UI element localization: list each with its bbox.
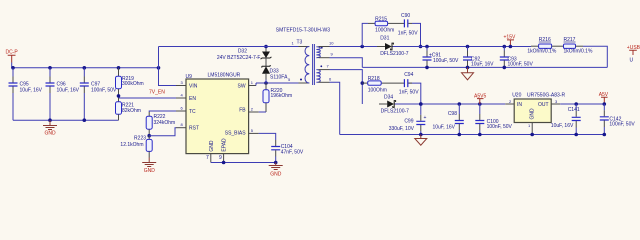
power +15V <box>504 34 516 48</box>
power A5V5 <box>474 93 486 104</box>
capacitor C98 <box>432 104 463 135</box>
wire U9 ground <box>211 162 276 164</box>
node C92 top <box>466 45 470 49</box>
node R219 R221 junction <box>117 94 121 98</box>
svg-text:C141: C141 <box>568 107 580 113</box>
wire primary top net <box>159 46 299 48</box>
node C91 bottom <box>425 66 429 70</box>
svg-text:47nF, 50V: 47nF, 50V <box>281 150 304 156</box>
resistor R216 <box>527 37 556 55</box>
diode D31 <box>377 36 409 58</box>
svg-text:10uF, 16V: 10uF, 16V <box>20 88 43 94</box>
pin GND stub U20 <box>531 123 533 135</box>
node C98 top <box>458 102 462 106</box>
regulator U20 <box>512 93 565 123</box>
resistor R215 <box>375 16 394 33</box>
node C91 top <box>425 45 429 49</box>
node C104 bottom <box>274 161 278 165</box>
capacitor C141 <box>551 104 581 135</box>
wire snubber2 <box>362 82 367 84</box>
node U20 GND bottom <box>530 133 534 137</box>
svg-text:7: 7 <box>206 155 209 161</box>
svg-text:10uF, 16V: 10uF, 16V <box>551 123 574 129</box>
svg-text:U20: U20 <box>512 93 521 99</box>
ground wedge below C99 <box>415 135 427 146</box>
resistor R218 <box>368 76 387 93</box>
svg-text:330uF, 10V: 330uF, 10V <box>389 126 415 132</box>
port +USB right edge <box>627 45 640 64</box>
pin SW stub and wire to transformer <box>249 85 256 87</box>
node C93 bottom <box>503 66 507 70</box>
diode D32 zener <box>217 47 272 62</box>
svg-text:EN: EN <box>189 96 196 102</box>
svg-text:1kOhm/0.1%: 1kOhm/0.1% <box>564 49 593 55</box>
svg-text:10uF, 16V: 10uF, 16V <box>57 88 80 94</box>
capacitor C95 <box>9 68 43 120</box>
svg-text:10uF, 16V: 10uF, 16V <box>432 125 455 131</box>
node C141 bottom <box>574 133 578 137</box>
svg-text:C98: C98 <box>448 111 457 117</box>
wire DC-P to VIN bus <box>11 63 13 68</box>
node VIN riser <box>157 66 161 70</box>
svg-text:TC: TC <box>189 109 196 115</box>
wire FB net <box>259 111 266 113</box>
node snubber1 right <box>419 45 423 49</box>
op-amp U9 body <box>186 72 249 153</box>
svg-text:C99: C99 <box>404 118 413 124</box>
wire A5V rail <box>560 103 604 105</box>
wire A5V5 rail <box>395 103 505 105</box>
svg-text:C90: C90 <box>401 13 410 19</box>
ground left GND <box>43 120 57 136</box>
pin OUT stub <box>551 103 560 105</box>
svg-text:D31: D31 <box>380 36 389 42</box>
resistor R221 <box>116 98 141 120</box>
svg-text:DC-P: DC-P <box>6 50 19 56</box>
capacitor C99 <box>389 104 427 135</box>
wire +15V rail <box>393 46 531 48</box>
wire snubber1 <box>362 23 420 46</box>
node C100 top <box>478 102 482 106</box>
wire SW net <box>256 83 299 86</box>
node C98 bottom <box>458 133 462 137</box>
ground below C104 <box>269 163 283 178</box>
capacitor C93 <box>500 47 534 68</box>
svg-text:U: U <box>630 58 634 64</box>
svg-text:100nF, 50V: 100nF, 50V <box>91 88 117 94</box>
capacitor C97 <box>80 68 117 120</box>
svg-text:1nF, 50V: 1nF, 50V <box>398 31 418 37</box>
pin FB stub <box>249 111 259 113</box>
capacitor C90 <box>398 13 418 37</box>
svg-text:C94: C94 <box>404 72 413 78</box>
svg-text:RST: RST <box>189 126 199 132</box>
node EPAD junction <box>222 161 226 165</box>
ground below R223 <box>142 151 156 174</box>
wire pin7 net <box>319 69 330 71</box>
svg-text:10uF, 16V: 10uF, 16V <box>471 61 494 67</box>
wire ground bus left <box>13 119 119 121</box>
wire output ground rail <box>340 134 605 136</box>
svg-text:100nF, 50V: 100nF, 50V <box>609 122 635 128</box>
node C96 top <box>48 66 52 70</box>
capacitor C104 <box>271 144 304 163</box>
resistor R222 <box>146 114 175 136</box>
resistor R219 <box>116 68 144 98</box>
svg-text:+: + <box>424 115 427 121</box>
node D32 top <box>264 45 268 49</box>
wire R216 R217 <box>552 45 564 47</box>
node C100 bottom <box>478 133 482 137</box>
svg-text:D32: D32 <box>238 49 247 55</box>
transformer T3 <box>276 28 334 86</box>
node SW clamp junction <box>264 81 268 85</box>
node C93 top <box>503 45 507 49</box>
svg-text:D34: D34 <box>384 94 393 100</box>
svg-text:FB: FB <box>239 108 246 114</box>
diode D33 <box>262 58 288 83</box>
svg-text:U9: U9 <box>186 74 193 80</box>
node C142 bottom corner <box>603 133 607 137</box>
port DC-P <box>6 50 19 63</box>
svg-text:GND: GND <box>45 131 57 137</box>
svg-text:VIN: VIN <box>189 84 198 90</box>
pin TC stub <box>176 110 186 112</box>
pin GND stub U9 <box>210 154 212 163</box>
wire pin9 net <box>319 57 330 59</box>
wire secondary ground rail <box>362 66 607 68</box>
wire SS_BIAS to C104 <box>259 133 276 140</box>
power A5V <box>599 92 609 106</box>
svg-text:100nF, 50V: 100nF, 50V <box>487 124 513 130</box>
node C92 bottom <box>466 66 470 70</box>
ground wedge below C92 <box>462 67 474 79</box>
pin VIN stub <box>176 85 186 87</box>
svg-text:R223: R223 <box>134 136 146 142</box>
wire VIN bus <box>12 67 159 69</box>
svg-text:GND: GND <box>209 140 215 152</box>
svg-text:SMTEFD15-T-30UH-W3: SMTEFD15-T-30UH-W3 <box>276 28 330 34</box>
capacitor C100 <box>475 104 512 135</box>
wire pin10 net <box>319 46 330 48</box>
svg-text:12.1kOhm: 12.1kOhm <box>120 142 143 148</box>
svg-text:324kOhm: 324kOhm <box>154 120 176 126</box>
svg-text:R215: R215 <box>375 16 387 22</box>
svg-text:GND: GND <box>144 168 156 174</box>
svg-text:1nF, 50V: 1nF, 50V <box>399 89 419 95</box>
wire VIN riser and VIN pin <box>159 47 177 86</box>
svg-text:GND: GND <box>530 108 536 120</box>
node C141 top <box>574 102 578 106</box>
node C97 bottom <box>83 118 87 122</box>
svg-text:S110FA: S110FA <box>270 75 288 81</box>
node R219 top <box>117 66 121 70</box>
wire pin6 net <box>319 81 330 83</box>
svg-text:100Ohm: 100Ohm <box>368 88 387 94</box>
capacitor C96 <box>46 68 80 120</box>
svg-text:UR7550G-A83-R: UR7550G-A83-R <box>527 93 565 99</box>
resistor R220 <box>263 83 292 112</box>
pin EPAD stub U9 <box>223 154 225 163</box>
svg-text:SS_BIAS: SS_BIAS <box>225 131 247 137</box>
node C97 top <box>83 66 87 70</box>
svg-text:10: 10 <box>329 41 334 46</box>
node snubber2 right <box>419 102 423 106</box>
svg-text:SW: SW <box>238 84 246 90</box>
svg-text:OUT: OUT <box>538 102 549 108</box>
svg-text:24V BZT52C24-7-F: 24V BZT52C24-7-F <box>217 55 261 61</box>
pin SS_BIAS stub <box>249 132 259 134</box>
capacitor C94 <box>399 72 419 95</box>
wire RST net <box>149 128 176 136</box>
resistor R217 <box>564 37 593 55</box>
node C96 bottom <box>48 118 52 122</box>
svg-text:R218: R218 <box>368 76 380 82</box>
wire R217 to ground loop <box>583 46 607 67</box>
node C99 bottom <box>419 133 423 137</box>
capacitor C92 <box>463 47 494 68</box>
node snubber2 left <box>361 81 365 85</box>
svg-text:100uF, 50V: 100uF, 50V <box>433 58 459 64</box>
svg-text:EPAD: EPAD <box>222 138 228 152</box>
pin RST stub <box>176 127 186 129</box>
capacitor C142 <box>600 104 636 135</box>
svg-text:100nF, 50V: 100nF, 50V <box>508 61 534 67</box>
resistor R223 <box>120 136 152 152</box>
svg-text:GND: GND <box>270 172 282 178</box>
wire TC net <box>149 111 176 112</box>
svg-text:DFLS2100-7: DFLS2100-7 <box>380 51 409 57</box>
svg-text:DFLS2100-7: DFLS2100-7 <box>381 109 410 115</box>
svg-text:T3: T3 <box>297 40 303 46</box>
svg-text:300kOhm: 300kOhm <box>122 81 144 87</box>
pin IN stub <box>505 103 514 105</box>
svg-text:LM5180NGUR: LM5180NGUR <box>208 72 241 78</box>
diode D34 <box>379 94 409 114</box>
svg-text:9: 9 <box>219 155 222 161</box>
svg-text:7V_EN: 7V_EN <box>149 90 165 96</box>
node C99 top <box>419 102 423 106</box>
svg-text:82kOhm: 82kOhm <box>122 108 141 114</box>
wire EN net <box>119 97 177 99</box>
svg-text:196kOhm: 196kOhm <box>271 93 293 99</box>
node snubber1 left <box>360 45 364 49</box>
capacitor C91 <box>423 47 459 68</box>
svg-text:+15V: +15V <box>504 34 516 40</box>
node DC-P bus <box>11 66 15 70</box>
svg-text:100Ohm: 100Ohm <box>375 28 394 34</box>
svg-text:1kOhm/0.1%: 1kOhm/0.1% <box>527 49 556 55</box>
node R222 R223 junction <box>147 134 151 138</box>
pin EN stub <box>176 97 186 99</box>
svg-text:IN: IN <box>517 102 522 108</box>
